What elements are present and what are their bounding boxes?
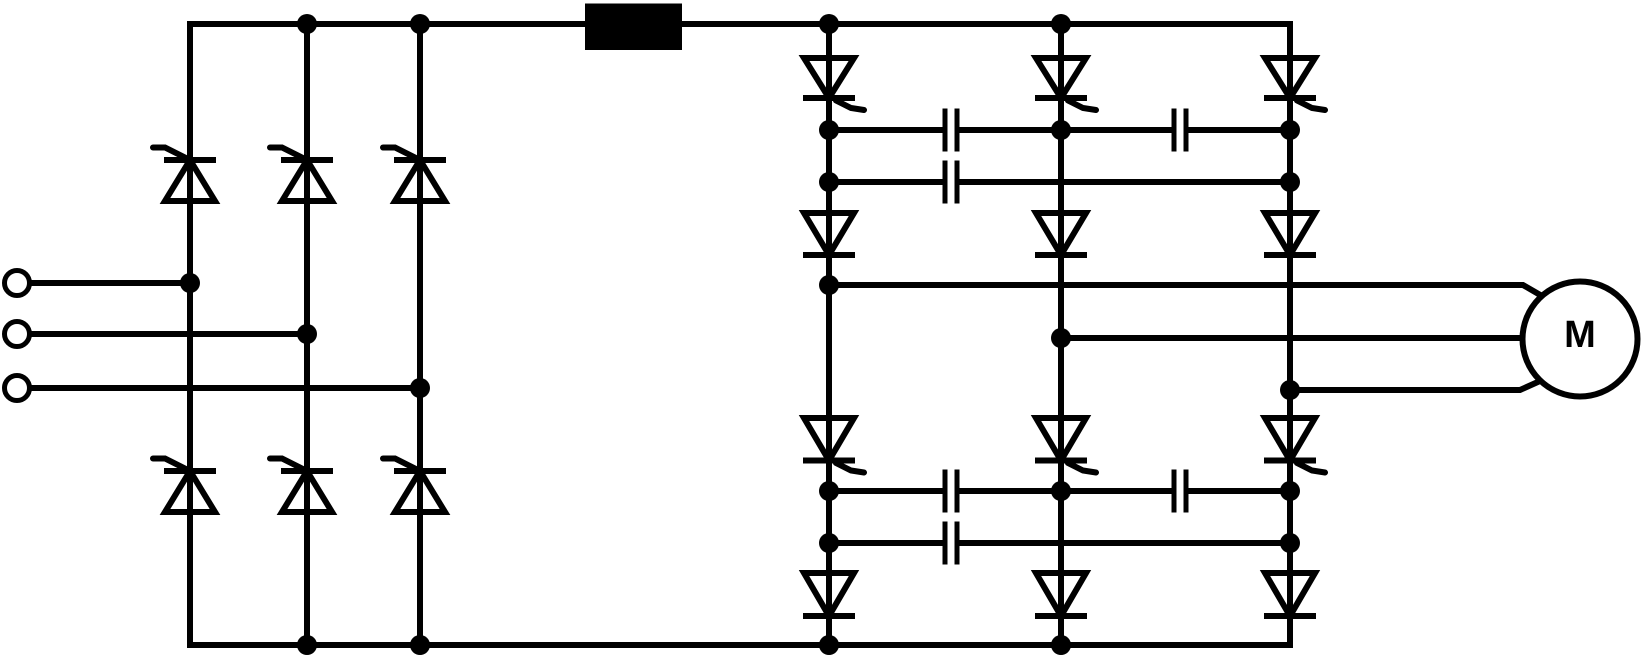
wire: motor phase W from inverter leg 3	[1290, 381, 1540, 390]
junction: lower cap row 1 / inverter leg 1	[819, 481, 839, 501]
wire: lower cap row 1 segment C5-leg3	[1188, 488, 1290, 494]
wire: bottom DC bus from rectifier to inverter	[187, 642, 1293, 648]
junction: phase 2 feeder / rectifier leg 2	[297, 324, 317, 344]
diode D6: inverter lower leg 2	[1035, 573, 1087, 616]
svg-text:M: M	[1564, 314, 1596, 356]
junction: motor phase U / inverter leg 1	[819, 275, 839, 295]
junction: bottom bus / inverter leg 2	[1051, 635, 1071, 655]
diode D4: inverter lower leg 1	[803, 573, 855, 616]
junction: lower cap row 1 / inverter leg 3	[1280, 481, 1300, 501]
terminal: AC input phase 3	[5, 376, 30, 401]
capacitor C1: commutation cap upper row legs 1-2	[945, 109, 957, 152]
junction: phase 3 feeder / rectifier leg 3	[410, 378, 430, 398]
thyristor SCR4: rectifier lower leg 1	[153, 459, 216, 513]
wire: rectifier leg 3 vertical	[417, 24, 423, 645]
wire: inverter leg 1 vertical	[826, 24, 832, 645]
thyristor T6: inverter lower leg 2	[1035, 418, 1096, 473]
thyristor SCR6: rectifier lower leg 2	[270, 459, 333, 513]
capacitor C2: commutation cap upper row legs 2-3	[1174, 109, 1186, 152]
junction: top bus / inverter leg 1	[819, 14, 839, 34]
wire: AC phase 1 feeder	[29, 280, 190, 286]
wire: lower cap row 1 segment leg1-C4	[829, 488, 943, 494]
wire: top DC bus from rectifier to inverter	[187, 21, 1293, 27]
wire: inverter leg 3 vertical	[1287, 24, 1293, 645]
thyristor SCR3: rectifier upper leg 2	[270, 148, 333, 202]
wire: lower cap row 1 segment leg2-C5	[1061, 488, 1172, 494]
junction: lower cap row 1 / inverter leg 2	[1051, 481, 1071, 501]
wire: rectifier leg 1 vertical	[187, 24, 193, 645]
junction: upper cap row 2 / inverter leg 3	[1280, 172, 1300, 192]
wire: upper cap row 2 segment leg1-C3	[829, 179, 943, 185]
junction: lower cap row 2 / inverter leg 1	[819, 533, 839, 553]
junction: upper cap row 1 / inverter leg 3	[1280, 120, 1300, 140]
wire: motor phase U from inverter leg 1	[829, 285, 1542, 296]
wire: rectifier leg 2 vertical	[304, 24, 310, 645]
junction: top bus / rectifier leg 3	[410, 14, 430, 34]
capacitor C3: commutation cap upper row legs 1-3	[945, 161, 957, 204]
motor M: induction motor circle	[1523, 282, 1638, 397]
thyristor T1: inverter upper leg 1	[803, 58, 864, 110]
terminal: AC input phase 2	[5, 322, 30, 347]
wire: upper cap row 1 segment leg2-C2	[1061, 127, 1172, 133]
junction: bottom bus / inverter leg 1	[819, 635, 839, 655]
thyristor T4: inverter lower leg 1	[803, 418, 864, 473]
junction: bottom bus / rectifier leg 2	[297, 635, 317, 655]
junction: top bus / rectifier leg 2	[297, 14, 317, 34]
capacitor C4: commutation cap lower row legs 1-2	[945, 470, 957, 513]
wire: lower cap row 2 segment leg1-C6	[829, 540, 943, 546]
wire: inverter leg 2 vertical	[1058, 24, 1064, 645]
diode D1: inverter upper leg 1	[803, 213, 855, 255]
junction: motor phase V / inverter leg 2	[1051, 328, 1071, 348]
junction: upper cap row 2 / inverter leg 1	[819, 172, 839, 192]
diode D5: inverter upper leg 3	[1264, 213, 1316, 255]
thyristor SCR2: rectifier lower leg 3	[383, 459, 446, 513]
junction: upper cap row 1 / inverter leg 1	[819, 120, 839, 140]
wire: upper cap row 2 segment C3-leg3	[959, 179, 1290, 185]
capacitor C5: commutation cap lower row legs 2-3	[1174, 470, 1186, 513]
wire: motor phase V from inverter leg 2	[1061, 335, 1523, 341]
terminal: AC input phase 1	[5, 271, 30, 296]
diode D2: inverter lower leg 3	[1264, 573, 1316, 616]
thyristor T2: inverter lower leg 3	[1264, 418, 1325, 473]
wire: AC phase 3 feeder	[29, 385, 420, 391]
wire: upper cap row 1 segment C2-leg3	[1188, 127, 1290, 133]
junction: top bus / inverter leg 2	[1051, 14, 1071, 34]
wire: lower cap row 1 segment C4-leg2	[959, 488, 1061, 494]
junction: upper cap row 1 / inverter leg 2	[1051, 120, 1071, 140]
thyristor SCR1: rectifier upper leg 1	[153, 148, 216, 202]
diode D3: inverter upper leg 2	[1035, 213, 1087, 255]
wire: lower cap row 2 segment C6-leg3	[959, 540, 1290, 546]
wire: upper cap row 1 segment leg1-C1	[829, 127, 943, 133]
thyristor SCR5: rectifier upper leg 3	[383, 148, 446, 202]
inductor L1: DC link choke (solid rectangle)	[585, 4, 682, 51]
thyristor T5: inverter upper leg 3	[1264, 58, 1325, 110]
capacitor C6: commutation cap lower row legs 1-3	[945, 522, 957, 565]
junction: lower cap row 2 / inverter leg 3	[1280, 533, 1300, 553]
wire: AC phase 2 feeder	[29, 331, 307, 337]
junction: motor phase W / inverter leg 3	[1280, 380, 1300, 400]
wire: upper cap row 1 segment C1-leg2	[959, 127, 1061, 133]
thyristor T3: inverter upper leg 2	[1035, 58, 1096, 110]
junction: bottom bus / rectifier leg 3	[410, 635, 430, 655]
junction: phase 1 feeder / rectifier leg 1	[180, 273, 200, 293]
